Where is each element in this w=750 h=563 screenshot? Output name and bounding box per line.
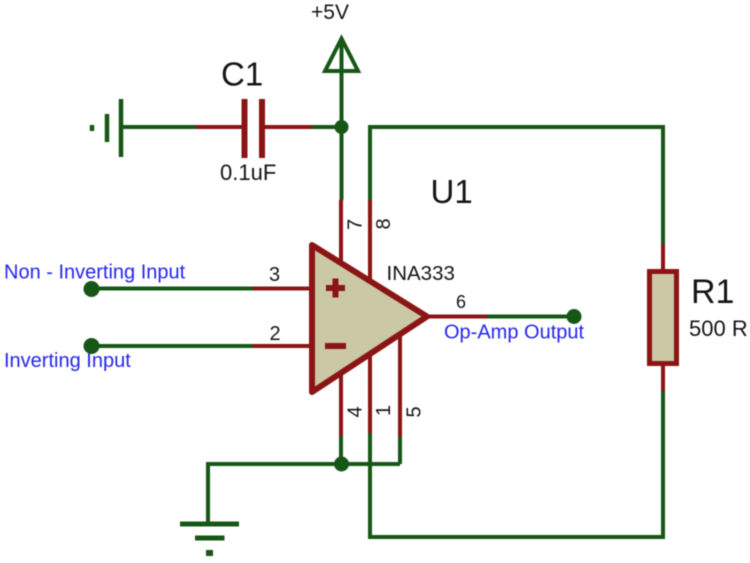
wire pin5 to ground rail	[398, 436, 402, 464]
svg-text:U1: U1	[431, 173, 473, 210]
svg-text:3: 3	[269, 264, 280, 286]
svg-text:500 R: 500 R	[689, 316, 748, 341]
wire pin4 to ground node	[339, 436, 343, 464]
wire C1 to +5V node	[312, 125, 342, 129]
svg-text:7: 7	[345, 219, 367, 230]
pin 5 lead	[398, 334, 402, 436]
pin 4 lead	[339, 372, 343, 436]
power symbol arrow	[325, 39, 358, 72]
svg-text:0.1uF: 0.1uF	[220, 160, 276, 185]
ground (bottom)	[180, 524, 239, 553]
ground (left, rotated)	[92, 99, 121, 157]
wire pin1 to R1 bottom loop	[370, 389, 663, 537]
op-amp plus marking	[326, 279, 345, 298]
node terminal inverting input	[84, 338, 100, 354]
svg-text:8: 8	[373, 218, 395, 229]
svg-text:4: 4	[345, 406, 367, 417]
resistor R1 bottom pin	[661, 362, 665, 391]
wire ground rail down	[206, 462, 210, 524]
svg-text:C1: C1	[221, 56, 263, 93]
wire +5V vertical to pin7	[340, 40, 344, 200]
node junction at +5V rail	[335, 120, 349, 134]
capacitor C1 left pin	[196, 125, 242, 129]
pin 8 lead	[368, 200, 372, 282]
op-amp minus marking	[325, 343, 346, 349]
svg-text:INA333: INA333	[387, 262, 455, 285]
pin 2 lead	[253, 344, 312, 348]
node junction ground rail	[334, 457, 349, 472]
svg-text:2: 2	[270, 323, 281, 345]
svg-text:R1: R1	[691, 273, 734, 311]
node terminal op-amp output	[567, 309, 582, 324]
svg-text:1: 1	[373, 405, 395, 416]
node terminal non-inverting input	[84, 281, 100, 297]
pin 6 lead output	[427, 315, 488, 319]
svg-text:Op-Amp Output: Op-Amp Output	[444, 321, 585, 343]
capacitor C1 plates	[245, 99, 263, 158]
wire inverting input	[92, 344, 255, 348]
wire non-inverting input	[92, 287, 255, 291]
svg-text:6: 6	[456, 292, 466, 312]
wire pin8 to R1 top loop	[370, 127, 663, 245]
svg-text:Inverting Input: Inverting Input	[4, 350, 131, 372]
pin 1 lead	[368, 354, 372, 433]
wire ground rail horizontal	[208, 462, 400, 466]
svg-text:+5V: +5V	[311, 1, 349, 24]
svg-text:Non - Inverting Input: Non - Inverting Input	[4, 262, 186, 284]
wire op-amp output	[487, 315, 574, 319]
svg-text:5: 5	[404, 406, 426, 417]
resistor R1 body	[650, 272, 677, 364]
op-amp U1 body	[312, 245, 427, 392]
resistor R1 top pin	[661, 244, 665, 273]
pin 3 lead	[253, 287, 312, 291]
wire ground to C1	[121, 125, 197, 129]
capacitor C1 right pin	[265, 125, 312, 129]
pin 7 lead	[339, 200, 343, 264]
